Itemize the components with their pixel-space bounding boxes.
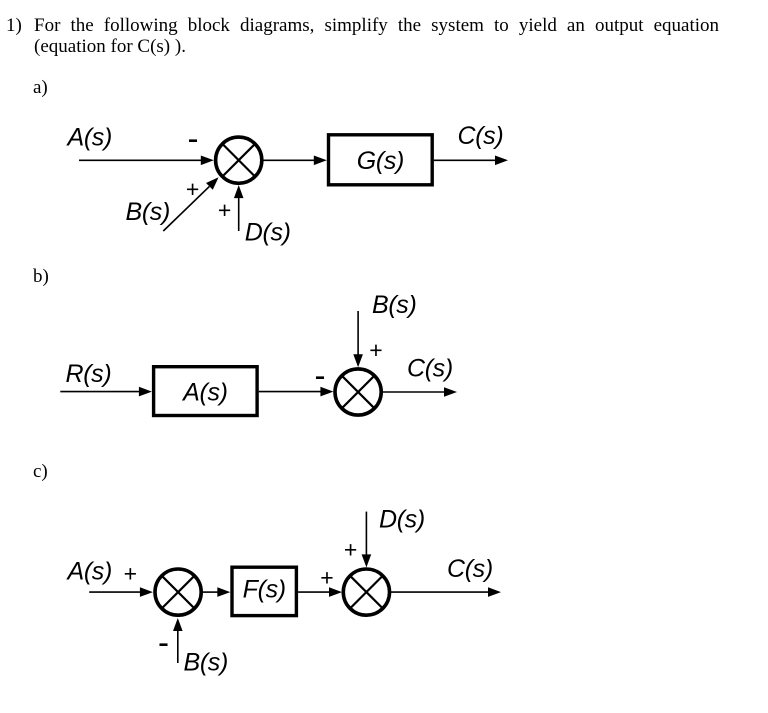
svg-text:C(s): C(s) [447, 555, 493, 583]
summing junction S1 [216, 137, 262, 183]
wire D(s) vertical [238, 197, 240, 231]
svg-text:B(s): B(s) [372, 291, 416, 319]
arrowhead into S2 [320, 387, 333, 397]
arrowhead C(s) output c [488, 587, 501, 597]
wire A(s) input [79, 159, 202, 161]
arrowhead C(s) output b [444, 387, 457, 397]
svg-text:-: - [188, 119, 199, 156]
arrowhead C(s) output a [495, 156, 508, 166]
svg-text:G(s): G(s) [357, 147, 404, 175]
arrowhead B(s) b [353, 354, 363, 367]
svg-text:+: + [320, 565, 333, 591]
wire S3 to F(s) [203, 591, 219, 593]
svg-text:A(s): A(s) [66, 124, 112, 152]
arrowhead D(s) c [362, 554, 372, 567]
svg-text:D(s): D(s) [379, 506, 425, 534]
svg-text:+: + [218, 197, 231, 223]
svg-text:+: + [369, 337, 382, 363]
wire F(s) to S4 [298, 591, 330, 593]
block G(s) [329, 135, 433, 185]
wire D(s) vertical c [365, 512, 367, 555]
block A(s) [154, 367, 258, 416]
svg-text:+: + [186, 176, 199, 202]
wire S4 output [390, 591, 489, 593]
arrowhead D(s) [234, 185, 244, 198]
arrowhead B(s) [206, 177, 219, 190]
svg-text:D(s): D(s) [245, 219, 291, 247]
wire S2 output [383, 391, 445, 393]
wire A(s) to S2 [259, 391, 322, 393]
arrowhead into S3 [140, 587, 153, 597]
summing junction S3 [155, 569, 201, 615]
wire B(s) vertical b [357, 311, 359, 355]
wire S1 to G(s) [264, 159, 316, 161]
svg-text:-: - [158, 623, 169, 660]
arrowhead A(s) input [201, 156, 214, 166]
arrowhead into S4 [329, 587, 342, 597]
wire B(s) diagonal [163, 186, 209, 231]
block F(s) [232, 567, 296, 615]
svg-text:A(s): A(s) [181, 379, 227, 407]
arrowhead into F(s) [217, 587, 230, 597]
wire A(s) input c [89, 591, 141, 593]
svg-text:+: + [124, 561, 137, 587]
wire B(s) vertical c [177, 631, 179, 663]
summing junction S2 [335, 369, 381, 415]
wire G(s) output [434, 159, 496, 161]
summing junction S4 [343, 569, 389, 615]
svg-text:A(s): A(s) [66, 558, 112, 586]
svg-text:C(s): C(s) [458, 122, 504, 150]
wire R(s) input [60, 391, 140, 393]
svg-text:B(s): B(s) [184, 649, 228, 677]
arrowhead R(s) input [139, 387, 152, 397]
svg-text:-: - [315, 357, 326, 394]
svg-text:B(s): B(s) [126, 198, 170, 226]
svg-text:+: + [344, 536, 357, 562]
arrowhead B(s) c [173, 618, 183, 631]
svg-text:R(s): R(s) [66, 360, 112, 388]
arrowhead into G(s) [314, 156, 327, 166]
svg-text:C(s): C(s) [407, 355, 453, 383]
svg-text:F(s): F(s) [243, 575, 286, 603]
